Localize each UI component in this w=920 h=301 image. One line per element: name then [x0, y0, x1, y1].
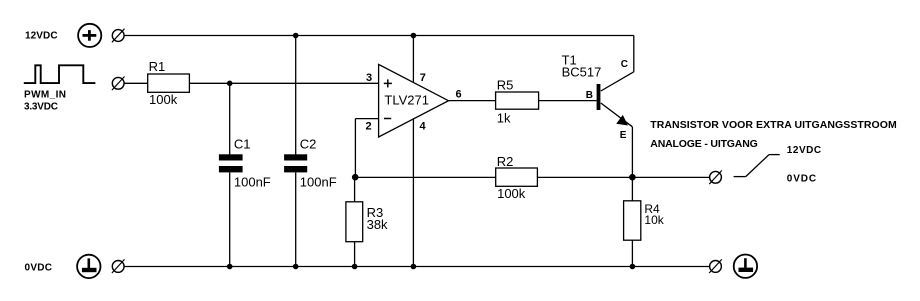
resistor R5: [496, 92, 539, 109]
wire 12VDC top rail: [124, 35, 634, 37]
wire pin 2 stub: [355, 118, 378, 120]
wire R4 bottom to 0VDC rail: [631, 240, 633, 266]
svg-text:TRANSISTOR VOOR EXTRA UITGANGS: TRANSISTOR VOOR EXTRA UITGANGSSTROOM: [650, 119, 897, 131]
svg-text:100nF: 100nF: [234, 175, 271, 190]
svg-text:12VDC: 12VDC: [25, 31, 58, 42]
svg-text:C1: C1: [234, 137, 251, 152]
svg-text:0VDC: 0VDC: [787, 173, 816, 184]
junction output node (emitter/R2/R4/out): [629, 174, 636, 181]
resistor R3: [346, 202, 363, 242]
wire feedback node to R2: [355, 176, 496, 178]
junction feedback node (R2/R3/pin2): [352, 174, 359, 181]
terminal analog output: [709, 171, 722, 185]
ground symbol (left): [77, 255, 100, 278]
svg-text:PWM_IN: PWM_IN: [24, 90, 66, 101]
transistor T1 emitter arrow: [616, 115, 628, 126]
svg-text:C2: C2: [300, 137, 317, 152]
wire C2 bottom to 0VDC rail: [295, 172, 297, 266]
wire C1 top: [229, 83, 231, 154]
wire pin 6 output to R5: [449, 100, 496, 102]
svg-text:100nF: 100nF: [300, 175, 337, 190]
resistor R4: [624, 201, 641, 240]
junction R1 output / C1: [227, 81, 233, 87]
wire R3 bottom to 0VDC rail: [354, 242, 356, 267]
svg-text:4: 4: [420, 120, 427, 132]
terminal PWM input: [112, 77, 125, 91]
resistor R1: [148, 74, 190, 92]
op-amp plus input marker: [384, 79, 392, 87]
svg-text:6: 6: [456, 89, 462, 101]
svg-text:R2: R2: [497, 154, 514, 169]
svg-text:R1: R1: [149, 59, 166, 74]
svg-text:BC517: BC517: [562, 65, 602, 80]
wire collector drop from rail: [633, 36, 635, 72]
junction bottom rail / C1: [227, 264, 233, 270]
terminal 0VDC (bottom left): [112, 259, 125, 273]
transistor T1 base bar: [597, 84, 601, 110]
svg-text:TLV271: TLV271: [384, 93, 429, 108]
svg-text:100k: 100k: [497, 186, 526, 201]
wire C2 top from 12VDC rail: [295, 36, 297, 155]
junction top rail / C2: [293, 33, 299, 39]
op-amp U1 TLV271 triangle: [379, 64, 449, 137]
output range symbol stub: [734, 176, 746, 178]
power source symbol (+): [78, 24, 101, 47]
wire pin 7 from rail: [412, 36, 414, 83]
svg-text:12VDC: 12VDC: [787, 145, 821, 156]
PWM waveform symbol: [24, 65, 96, 83]
junction bottom rail / R3: [352, 264, 358, 270]
output range symbol ramp: [746, 155, 769, 177]
svg-text:3: 3: [366, 72, 372, 84]
svg-text:E: E: [620, 130, 627, 141]
junction bottom rail / R4: [630, 264, 636, 270]
wire PWM terminal to R1: [124, 82, 148, 84]
wire R4 top: [631, 177, 633, 200]
svg-text:C: C: [621, 59, 628, 70]
junction bottom rail / pin 4: [411, 264, 417, 270]
junction top rail / pin 7: [411, 33, 417, 39]
wire pin 2 down to feedback node: [354, 119, 356, 178]
wire R2 to output node: [537, 176, 632, 178]
wire pin 4 to 0VDC rail: [412, 119, 414, 267]
wire emitter down to output node: [631, 127, 633, 178]
capacitor C1: [219, 154, 243, 172]
svg-text:B: B: [586, 90, 593, 101]
junction bottom rail / C2: [293, 264, 299, 270]
op-amp minus input marker: [384, 118, 391, 120]
svg-text:2: 2: [366, 120, 372, 132]
wire C1 bottom to 0VDC rail: [229, 172, 231, 266]
capacitor C2: [284, 154, 307, 172]
resistor R2: [496, 168, 538, 186]
svg-text:100k: 100k: [149, 92, 178, 107]
transistor T1 collector wire: [601, 72, 634, 91]
output range symbol top level: [769, 154, 780, 156]
wire 0VDC bottom rail: [124, 266, 709, 268]
terminal 0VDC (bottom right): [709, 259, 722, 273]
svg-text:3.3VDC: 3.3VDC: [24, 102, 58, 113]
wire R1 to op-amp pin 3: [189, 82, 378, 84]
terminal 12VDC input: [112, 29, 125, 43]
wire R3 top: [354, 177, 356, 201]
svg-text:38k: 38k: [367, 217, 388, 232]
transistor T1 emitter wire: [601, 103, 633, 127]
svg-text:10k: 10k: [644, 213, 664, 227]
svg-text:ANALOGE - UITGANG: ANALOGE - UITGANG: [650, 138, 758, 150]
svg-text:7: 7: [420, 72, 426, 84]
ground symbol (right): [734, 255, 757, 278]
svg-text:0VDC: 0VDC: [25, 262, 53, 273]
svg-text:R5: R5: [497, 78, 514, 93]
wire output node to output terminal: [632, 176, 709, 178]
svg-text:1k: 1k: [497, 111, 511, 126]
wire R5 to base: [539, 100, 597, 102]
